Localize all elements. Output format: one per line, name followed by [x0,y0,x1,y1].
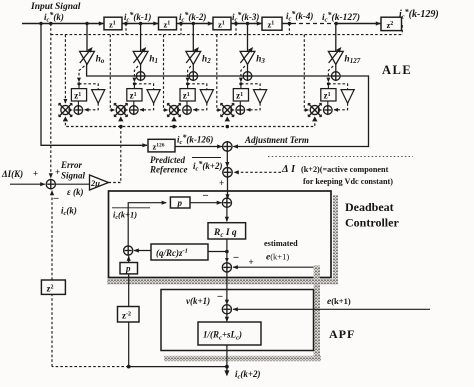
node junction [225,250,229,254]
wire between D1 D2 [122,23,159,25]
wire input to z126 [41,24,147,146]
svg-text:for keeping Vdc constant): for keeping Vdc constant) [303,177,393,186]
svg-text:–: – [217,291,224,302]
wire weight sum line [87,64,336,76]
wire dashed tap-feed bus [51,34,403,36]
delay z2 left box [41,280,65,294]
label ic(k+1) overlined [112,207,150,209]
delay z126 box [148,139,175,152]
svg-text:+: + [249,257,254,267]
svg-text:+: + [33,169,38,179]
svg-text:Error: Error [60,160,83,170]
adder deadbeat left [124,246,133,255]
svg-text:v(k+1): v(k+1) [186,296,210,306]
svg-text:(k+2)(=active component: (k+2)(=active component [301,165,389,174]
wire dashed ic*(k) down into error adder [50,24,52,178]
wire plant box down to output [226,345,228,367]
summing adder on sum line [243,72,252,81]
error x input multiplier [116,105,125,114]
svg-text:2μ: 2μ [90,178,100,188]
svg-text:h1: h1 [149,55,158,66]
wire into D5 [336,23,381,25]
wire junction to qRc box [208,251,227,253]
wire z126 to adder [175,146,222,148]
wire dI adder down to deadbeat [227,177,229,199]
arrowheads into delay boxes [99,21,104,25]
weight update delay z1 [321,89,336,101]
svg-text:Δ I: Δ I [281,164,296,175]
tap 5 group [335,24,337,52]
svg-text:e(k+1): e(k+1) [327,296,351,307]
plant box 1/(Rc+sLc) [198,322,261,345]
wire dashed stubs from main line to bus [125,24,127,35]
adder APF [222,305,231,314]
svg-text:ΔI(K): ΔI(K) [1,169,23,179]
adder deadbeat bottom [222,263,231,272]
amplifier 2mu [90,175,109,190]
svg-text:Signal: Signal [61,171,86,181]
Deadbeat controller box shadow [333,195,338,285]
adder deadbeat top [222,198,231,207]
wire dI(K) into error adder [10,183,45,185]
svg-text:+: + [219,178,224,188]
svg-text:Adjustment Term: Adjustment Term [244,135,309,145]
wire junction down to bottom adder [226,252,228,263]
svg-text:–: – [233,252,240,263]
wire APF adder into plant box [226,314,228,322]
wire deadbeat out down to APF adder [226,272,228,304]
wire error adder to 2mu [55,183,89,185]
wire z-2 down to bottom bus [128,322,130,367]
weight update delay z1 [233,89,248,101]
svg-text:Predicted: Predicted [150,155,185,165]
wire error bus dashed [65,118,314,127]
svg-text:Controller: Controller [345,216,399,230]
weight accumulate adder [324,106,333,115]
wire pB down through z-2 [128,274,130,307]
svg-text:ic*(k+2): ic*(k+2) [193,160,223,173]
wire p bottom up into left adder [128,256,130,262]
svg-text:p: p [177,198,183,208]
wire estimated e(k+1) into bottom adder [233,266,315,268]
svg-text:ic(k): ic(k) [61,206,77,218]
error x input multiplier [223,105,232,114]
svg-text:h127: h127 [344,55,360,66]
label ic*(k+2) overlined [192,157,221,159]
svg-text:Reference: Reference [149,165,187,175]
adder error [46,180,55,189]
weight update delay z1 [71,89,86,101]
weight accumulate adder [236,106,245,115]
error x input multiplier [169,105,178,114]
svg-text:p: p [125,264,131,274]
delay z1 box D1 [104,17,122,30]
svg-text:ε (k): ε (k) [67,187,83,197]
svg-text:ALE: ALE [382,63,412,77]
wire after D4 [282,23,292,25]
APF box [161,290,314,351]
gain p box bottom [120,263,138,274]
adder predicted reference [223,142,232,151]
wire ellipsis dashed main line [292,23,336,25]
delay z-2 mid box [118,307,140,323]
error bus junction dots [119,125,123,129]
node output junction [225,365,229,369]
Deadbeat controller box [109,191,332,278]
wire dashed D5 output drop [401,25,403,35]
wire dashed feedback up through z2 left [51,294,53,366]
svg-text:Rc I q: Rc I q [213,228,237,239]
wire p to top adder [190,202,221,204]
wire feedback up into p [128,203,166,246]
svg-text:h2: h2 [202,55,211,66]
gain box Rc I q [208,223,246,239]
main line junction dots [39,22,42,25]
svg-text:estimated: estimated [264,239,298,248]
tap 4 group [247,24,249,52]
tap 3 group [192,24,194,52]
svg-text:Input Signal: Input Signal [30,2,81,12]
summing adder on sum line [332,72,341,81]
APF box shadow [314,266,321,362]
svg-text:APF: APF [329,327,355,341]
weight update delay z1 [127,89,142,101]
wire pred adder to dI adder [226,151,228,166]
svg-text:e(k+1): e(k+1) [266,252,289,263]
delay z1 box D3 [213,17,231,30]
wire error riser from 2mu amp [109,127,121,183]
wire main input line [22,23,104,25]
error x input multiplier [61,105,70,114]
svg-text:ho: ho [96,55,105,66]
wire bottom feedback solid [129,366,227,368]
gain p box top [170,197,190,208]
svg-text:–: – [202,190,209,201]
wire between D3 D4 [231,23,262,25]
weight accumulate adder [183,106,192,115]
wire Rc/q down to junction [226,239,228,252]
error x input multiplier [310,105,319,114]
wire between D2 D3 [177,23,214,25]
summing adder on sum line [189,72,198,81]
svg-text:h3: h3 [256,55,265,66]
wire sum line to adjustment corner [233,76,368,147]
summing adder on sum line [136,72,145,81]
wire bottom feedback dashed [52,366,129,368]
wire output arrow down [226,367,228,375]
delay z2 box D5 [381,17,402,30]
delay z1 box D4 [262,17,282,30]
weight update delay z1 [180,89,195,101]
tap 2 group [140,24,142,52]
wire e(k+1) into APF adder [233,308,430,310]
wire dashed delta I input [234,171,281,173]
wire top adder to Rc/q box [226,207,228,221]
weight accumulate adder [74,106,83,115]
faint dotted line [268,156,413,158]
tap 1 group [86,24,88,52]
svg-text:Deadbeat: Deadbeat [345,200,394,214]
svg-text:+: + [55,167,60,177]
adder delta I [223,168,232,177]
delay z1 box D2 [159,17,177,30]
wire qRc box to left adder [134,250,151,252]
weight accumulate adder [130,106,139,115]
gain box (q/Rc)z-1 [151,244,208,260]
